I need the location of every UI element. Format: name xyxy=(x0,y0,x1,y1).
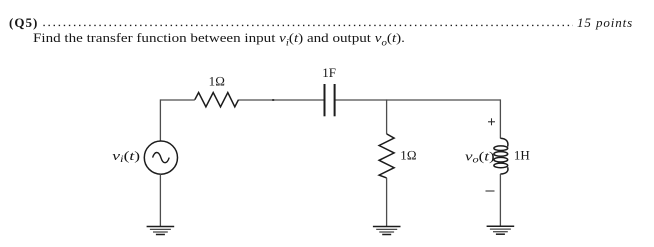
ground (right) xyxy=(487,226,515,234)
wire: source bottom to left ground xyxy=(159,174,161,226)
question header (Q5) xyxy=(9,15,38,31)
wire: top middle horizontal segment (R1 to C1) xyxy=(239,99,325,101)
wire: top right horizontal segment (C1 to right corner) xyxy=(335,99,501,101)
plus polarity mark xyxy=(488,118,495,125)
wire: middle branch top (junction to R2) xyxy=(386,99,388,133)
ground (middle) xyxy=(373,227,401,235)
svg-text:vi(t): vi(t) xyxy=(112,149,140,165)
wire: top left horizontal segment (source corner to R1) xyxy=(160,99,194,101)
resistor R1 1ohm (horizontal) xyxy=(195,73,239,106)
wire: middle branch bottom (R2 to middle ground) xyxy=(386,178,388,227)
svg-text:1Ω: 1Ω xyxy=(400,147,417,162)
inductor L1 1H xyxy=(465,138,530,174)
source V1 v_i(t) xyxy=(112,141,177,174)
svg-text:1Ω: 1Ω xyxy=(209,73,226,88)
minus polarity mark xyxy=(486,190,495,192)
points label 15 points xyxy=(577,15,633,31)
dotted leader line xyxy=(0,0,654,32)
wire: inductor bottom to right ground xyxy=(499,174,501,226)
wire: left vertical from corner to source top xyxy=(159,99,161,141)
svg-text:vo(t): vo(t) xyxy=(465,150,495,165)
ground (left) xyxy=(147,227,175,235)
svg-text:1H: 1H xyxy=(514,148,530,163)
resistor R2 1ohm (vertical) xyxy=(379,134,417,178)
prompt text xyxy=(33,31,405,48)
wire: right vertical from corner to inductor top xyxy=(499,99,501,138)
svg-text:1F: 1F xyxy=(322,65,336,80)
capacitor C1 1F xyxy=(322,65,336,116)
